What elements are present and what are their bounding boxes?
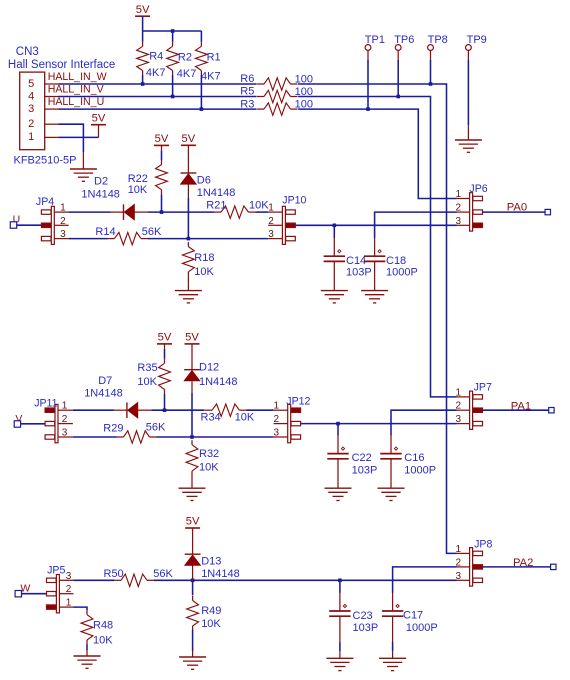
svg-text:10K: 10K (235, 411, 255, 423)
svg-text:JP5: JP5 (47, 564, 65, 576)
net label HALL_IN_W (48, 71, 107, 83)
port W (15, 583, 46, 597)
svg-text:R1: R1 (207, 52, 221, 64)
svg-text:2: 2 (28, 118, 34, 130)
wire JP4 pin3 to R14 (69, 238, 108, 240)
resistor R21 10K (206, 200, 269, 219)
svg-text:10K: 10K (199, 461, 219, 473)
svg-text:JP7: JP7 (474, 382, 492, 394)
connector JP12 (274, 401, 301, 443)
label Hall Sensor Interface (8, 59, 115, 71)
svg-text:5V: 5V (155, 133, 169, 145)
svg-text:Hall Sensor Interface: Hall Sensor Interface (8, 59, 115, 71)
svg-text:JP12: JP12 (286, 396, 310, 408)
svg-text:4: 4 (28, 90, 34, 102)
resistor R35 10K (137, 359, 170, 394)
junction 5V rail at R2 (171, 29, 175, 33)
wire C22 down (337, 424, 339, 436)
svg-text:3: 3 (66, 571, 72, 582)
wire node to R49 (192, 580, 194, 595)
wire R21 to JP10 pin1 (256, 211, 269, 213)
svg-text:56K: 56K (153, 568, 173, 580)
svg-text:1000P: 1000P (406, 622, 438, 634)
svg-text:C14: C14 (346, 255, 366, 267)
resistor R18 10K (183, 242, 215, 278)
svg-text:5V: 5V (186, 516, 200, 528)
connector CN3 KFB2510-5P (20, 72, 59, 150)
svg-text:JP10: JP10 (282, 194, 306, 206)
diode D12 1N4148 (184, 361, 237, 388)
wire TP1 down (367, 60, 369, 109)
diode D7 1N4148 (84, 375, 151, 418)
svg-text:HALL_IN_V: HALL_IN_V (48, 84, 105, 96)
connector JP10 (268, 203, 295, 245)
net label PA0 (507, 202, 527, 214)
wire C22 to ground (337, 459, 339, 481)
svg-text:R14: R14 (95, 226, 115, 238)
wire JP5 pin3 to R50 (74, 579, 115, 581)
resistor R29 56K (103, 421, 166, 443)
svg-text:5: 5 (28, 78, 34, 90)
testpoint TP1 (365, 34, 385, 60)
power 5V D6 (181, 133, 196, 173)
junction R1 bottom (200, 107, 204, 111)
ground R48 (74, 649, 101, 668)
svg-text:3: 3 (60, 229, 66, 240)
diode D13 1N4148 (185, 554, 240, 580)
svg-text:1: 1 (62, 401, 68, 412)
wire R50 to JP8 pin3 (154, 579, 457, 581)
junction D13 R49 node (191, 579, 195, 583)
svg-text:D2: D2 (94, 176, 108, 188)
junction D6 R18 node (187, 237, 191, 241)
wire C14 to ground (333, 261, 335, 283)
testpoint TP9 (466, 34, 487, 60)
svg-text:R21: R21 (206, 200, 226, 212)
svg-text:1: 1 (456, 189, 462, 200)
svg-text:10K: 10K (201, 618, 221, 630)
svg-text:JP11: JP11 (34, 397, 57, 409)
svg-text:103P: 103P (352, 465, 378, 477)
wire 5V to R35 (164, 349, 166, 359)
power 5V supply top rail (135, 4, 150, 16)
wire R22 to node (161, 194, 163, 212)
wire TP8 down (430, 60, 432, 84)
wire R14 to JP10 pin3 (148, 238, 268, 240)
power 5V R35 (157, 332, 172, 349)
svg-text:1: 1 (66, 598, 72, 609)
junction TP8 on HALL_IN_W (429, 82, 433, 86)
svg-text:4K7: 4K7 (177, 68, 197, 80)
net label HALL_IN_V (48, 84, 105, 96)
wire C17 to JP8 pin2 (393, 567, 457, 593)
svg-text:JP8: JP8 (474, 539, 492, 551)
svg-text:3: 3 (28, 103, 34, 115)
svg-text:CN3: CN3 (16, 46, 39, 58)
wire C16 to JP7 pin2 (391, 410, 457, 435)
label KFB2510-5P (14, 154, 77, 166)
power 5V D12 (185, 332, 200, 370)
resistor R5 100 (240, 86, 313, 103)
svg-text:PA1: PA1 (511, 400, 531, 412)
label JP4 (36, 196, 54, 208)
resistor R50 56K (104, 568, 174, 587)
port PA1 terminal (549, 408, 554, 413)
connector JP8 (456, 544, 483, 586)
ground R32 (179, 481, 206, 500)
ground R49 (179, 650, 206, 669)
wire PA1 (483, 409, 549, 411)
svg-text:1: 1 (268, 203, 274, 214)
junction C22 tap (336, 422, 340, 426)
diode D6 1N4148 (181, 173, 236, 199)
ground C14 (321, 284, 348, 303)
net label PA2 (513, 557, 533, 569)
svg-text:10K: 10K (93, 635, 113, 647)
wire D2 to R21 (148, 211, 214, 213)
wire C16 to ground (390, 459, 392, 481)
label JP5 (47, 564, 65, 576)
svg-text:JP4: JP4 (36, 196, 54, 208)
svg-text:2: 2 (456, 557, 462, 568)
capacitor C17 1000P (382, 592, 438, 634)
wire TP6 down (397, 60, 399, 97)
svg-text:5V: 5V (185, 332, 199, 344)
wire R35 to node (164, 394, 166, 410)
label CN3 (16, 46, 39, 58)
connector JP4 (41, 203, 68, 245)
svg-text:10K: 10K (128, 184, 148, 196)
junction R22 bottom (160, 210, 164, 214)
svg-text:103P: 103P (353, 622, 379, 634)
svg-text:1: 1 (456, 544, 462, 555)
wire JP12 pin2 to JP7 pin3 (301, 423, 457, 425)
svg-text:R5: R5 (240, 86, 254, 98)
wire C23 to ground (339, 616, 341, 651)
wire HALL_IN_U left (59, 108, 257, 110)
wire C14 down (333, 225, 335, 238)
connector JP5 (47, 571, 74, 613)
svg-text:R48: R48 (93, 619, 113, 631)
svg-text:C17: C17 (403, 609, 423, 621)
resistor R22 10K (128, 160, 168, 196)
svg-text:R3: R3 (240, 98, 254, 110)
svg-text:5V: 5V (182, 133, 196, 145)
resistor R49 10K (187, 596, 222, 631)
label JP12 (286, 396, 310, 408)
port PA2 terminal (551, 564, 556, 569)
svg-text:1N4148: 1N4148 (201, 568, 240, 580)
svg-text:56K: 56K (146, 421, 166, 433)
ground TP9 (455, 133, 482, 152)
svg-text:4K7: 4K7 (201, 70, 221, 82)
svg-text:10K: 10K (194, 266, 214, 278)
svg-text:R22: R22 (128, 173, 148, 185)
svg-text:R29: R29 (103, 423, 123, 435)
svg-text:C23: C23 (353, 610, 373, 622)
svg-text:2: 2 (60, 216, 66, 227)
resistor R4 4K7 (137, 42, 166, 79)
resistor R3 100 (240, 98, 313, 115)
svg-text:3: 3 (456, 216, 462, 227)
power 5V R22 (154, 133, 169, 150)
wire C23 down (339, 580, 341, 592)
port PA0 terminal (545, 209, 550, 214)
junction R4 bottom (141, 82, 145, 86)
wire R49 to ground (192, 630, 194, 651)
wire R4 to HALL_IN_W (142, 75, 144, 84)
wire R18 to ground (187, 276, 189, 283)
wire 5V rail to pull-up resistors (143, 16, 202, 42)
svg-text:R34: R34 (201, 411, 221, 423)
svg-text:R4: R4 (149, 51, 163, 63)
svg-text:R49: R49 (201, 605, 221, 617)
capacitor C18 1000P (364, 237, 418, 278)
svg-text:5V: 5V (92, 112, 106, 124)
svg-text:D12: D12 (199, 361, 219, 373)
resistor R14 56K (95, 226, 162, 245)
svg-text:D6: D6 (197, 174, 211, 186)
svg-text:103P: 103P (346, 266, 372, 278)
svg-text:2: 2 (66, 584, 72, 595)
power 5V D13 (185, 516, 200, 555)
svg-text:1000P: 1000P (386, 266, 418, 278)
wire PA0 (483, 211, 546, 213)
connector JP7 (456, 387, 483, 429)
wire JP11 pin1 to D7 (73, 409, 114, 411)
svg-text:PA0: PA0 (507, 202, 527, 214)
svg-text:5V: 5V (136, 4, 150, 16)
wire D6 anode down (187, 185, 189, 239)
resistor R32 10K (186, 440, 219, 475)
wire D7 to R34 (151, 409, 204, 411)
net label PA1 (511, 400, 531, 412)
svg-text:1: 1 (28, 131, 34, 143)
wire CN3 pin2 to ground (59, 124, 84, 162)
wire TP9 down (467, 60, 469, 133)
svg-text:R32: R32 (199, 448, 219, 460)
svg-text:D7: D7 (98, 375, 112, 387)
wire JP4 pin1 to D2 (69, 211, 111, 213)
svg-text:C16: C16 (404, 452, 424, 464)
wire R29 to JP12 pin3 (157, 436, 274, 438)
svg-text:R6: R6 (240, 73, 254, 85)
svg-text:10K: 10K (249, 200, 269, 212)
svg-text:2: 2 (274, 414, 280, 425)
testpoint TP8 (428, 34, 448, 60)
svg-text:HALL_IN_U: HALL_IN_U (48, 96, 105, 108)
port U (10, 213, 41, 228)
svg-text:1N4148: 1N4148 (81, 188, 120, 200)
wire C17 to ground (392, 616, 394, 651)
junction C23 tap (338, 579, 342, 583)
wire 5V to R22 (161, 150, 163, 160)
resistor R2 4K7 (167, 42, 197, 80)
svg-text:2: 2 (456, 401, 462, 412)
wire R32 to ground (191, 476, 193, 482)
svg-text:2: 2 (456, 203, 462, 214)
wire HALL_IN_W left (59, 83, 257, 85)
svg-text:3: 3 (62, 428, 68, 439)
capacitor C23 103P (329, 592, 378, 634)
svg-text:3: 3 (456, 571, 462, 582)
svg-text:R2: R2 (178, 52, 192, 64)
svg-text:3: 3 (268, 229, 274, 240)
junction TP1 on HALL_IN_U (366, 107, 370, 111)
ground C18 (361, 284, 388, 303)
label JP6 (469, 183, 487, 195)
wire HALL_IN_U to JP6 pin1 (298, 109, 456, 198)
junction C14 tap (333, 224, 337, 228)
wire D12 anode down (191, 381, 193, 437)
svg-text:C22: C22 (352, 452, 372, 464)
svg-text:5V: 5V (158, 332, 172, 344)
svg-text:2: 2 (268, 216, 274, 227)
wire HALL_IN_V left (59, 96, 257, 98)
connector JP11 (45, 401, 73, 443)
wire JP10 pin2 to JP6 pin3 (295, 224, 456, 226)
wire JP11 pin3 to R29 (73, 436, 117, 438)
svg-text:JP6: JP6 (469, 183, 487, 195)
svg-text:HALL_IN_W: HALL_IN_W (48, 71, 107, 83)
capacitor C14 103P (324, 237, 372, 278)
svg-text:1: 1 (456, 387, 462, 398)
wire R48 to ground (86, 645, 88, 651)
wire R2 to HALL_IN_V (172, 75, 174, 97)
wire D13 anode down (192, 565, 194, 580)
capacitor C22 103P (327, 435, 377, 477)
capacitor C16 1000P (380, 435, 436, 477)
junction TP6 on HALL_IN_V (396, 95, 400, 99)
testpoint TP6 (394, 34, 414, 60)
connector JP6 (456, 189, 483, 231)
resistor R48 10K (81, 610, 113, 646)
svg-text:R35: R35 (137, 362, 157, 374)
wire HALL_IN_V to JP7 pin1 (298, 97, 456, 397)
svg-text:2: 2 (62, 414, 68, 425)
svg-text:KFB2510-5P: KFB2510-5P (14, 154, 77, 166)
svg-text:1: 1 (274, 401, 280, 412)
diode D2 1N4148 (81, 176, 148, 220)
junction D12 R32 node (190, 435, 194, 439)
resistor R34 10K (201, 404, 255, 423)
svg-text:1N4148: 1N4148 (197, 187, 236, 199)
svg-text:56K: 56K (142, 226, 162, 238)
svg-text:4K7: 4K7 (146, 67, 166, 79)
ground C23 (326, 651, 353, 670)
label JP11 (34, 397, 57, 409)
wire HALL_IN_W to JP8 pin1 (298, 84, 456, 553)
ground C22 (325, 481, 352, 500)
wire C18 to JP6 pin2 (375, 212, 457, 238)
wire PA2 (483, 566, 551, 568)
svg-text:D13: D13 (201, 555, 221, 567)
wire R34 to JP12 pin1 (247, 409, 274, 411)
port V (14, 413, 45, 427)
svg-text:R18: R18 (194, 252, 214, 264)
net label HALL_IN_U (48, 96, 105, 108)
junction R35 bottom (163, 408, 167, 412)
svg-text:TP9: TP9 (467, 34, 487, 46)
svg-text:R50: R50 (104, 568, 124, 580)
wire R1 to HALL_IN_U (200, 75, 202, 109)
svg-text:1N4148: 1N4148 (199, 376, 238, 388)
svg-text:3: 3 (456, 414, 462, 425)
ground C17 (379, 651, 406, 670)
ground CN3 (70, 162, 97, 181)
wire C18 to ground (374, 261, 376, 283)
resistor R6 100 (240, 73, 313, 90)
ground R18 (175, 284, 202, 303)
ground C16 (378, 481, 405, 500)
wire CN3 pin1 (59, 136, 99, 138)
junction R2 bottom (171, 95, 175, 99)
label JP7 (474, 382, 492, 394)
label JP10 (282, 194, 306, 206)
resistor R1 4K7 (196, 42, 221, 83)
label JP8 (474, 539, 492, 551)
svg-text:C18: C18 (386, 255, 406, 267)
svg-text:1000P: 1000P (404, 465, 436, 477)
wire JP5 pin1 to R48 (74, 607, 88, 610)
power 5V CN3 pin1 (91, 112, 106, 137)
svg-text:1: 1 (60, 203, 66, 214)
svg-text:1N4148: 1N4148 (84, 388, 123, 400)
svg-text:3: 3 (274, 428, 280, 439)
svg-text:10K: 10K (137, 376, 157, 388)
svg-text:PA2: PA2 (513, 557, 533, 569)
